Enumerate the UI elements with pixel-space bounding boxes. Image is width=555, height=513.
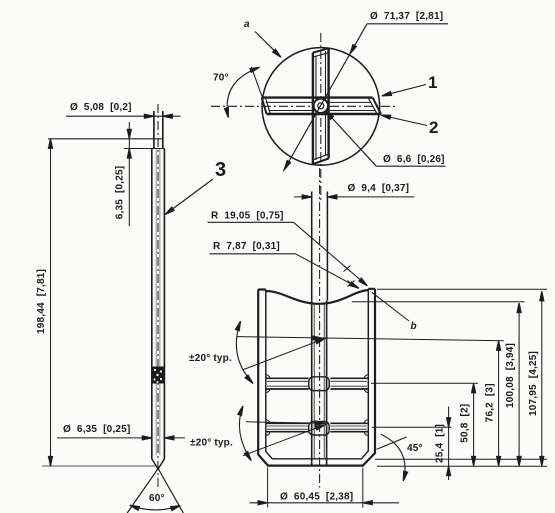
hub bore circle <box>318 103 324 109</box>
svg-text:1: 1 <box>428 73 437 92</box>
upper tilt arc <box>236 321 253 383</box>
70-degree arc arrow <box>227 67 259 117</box>
upper tilt datum line and 76,2 extension <box>236 337 503 341</box>
svg-text:a: a <box>244 19 250 30</box>
shaft centerline <box>157 104 159 488</box>
extension line bottom of 198,44 <box>42 465 157 467</box>
svg-text:Ø 6,6 [0,26]: Ø 6,6 [0,26] <box>383 154 445 165</box>
extension lines right side top <box>377 288 547 290</box>
dimension line diameter 6,35 lower <box>57 437 185 439</box>
svg-text:Ø 5,08 [0,2]: Ø 5,08 [0,2] <box>70 102 132 113</box>
shaft inner bore lines <box>156 149 160 456</box>
vertical centerline top view <box>320 33 322 200</box>
lower bar end fillets <box>266 420 369 436</box>
leader for label 2 <box>383 116 427 126</box>
dimension 6,35 vertical <box>128 122 130 226</box>
45-degree arc <box>381 434 405 481</box>
dimension diameter 9,4 <box>294 196 415 198</box>
svg-text:6,35 [0,25]: 6,35 [0,25] <box>115 166 126 220</box>
svg-text:3: 3 <box>215 159 226 181</box>
dimension leader diameter 6,6 hub bore <box>376 165 445 167</box>
hub outer circle <box>314 99 328 113</box>
svg-text:±20° typ.: ±20° typ. <box>190 438 233 449</box>
dimension line diameter 5,08 <box>66 115 181 117</box>
center bar inner lines <box>314 304 324 459</box>
extension for 50,8 <box>371 382 478 384</box>
svg-text:Ø 6,35 [0,25]: Ø 6,35 [0,25] <box>63 424 130 435</box>
svg-text:2: 2 <box>429 118 438 137</box>
dimension 50,8 <box>473 383 475 466</box>
middle bar end fillets <box>266 375 369 393</box>
svg-text:Ø 9,4 [0,37]: Ø 9,4 [0,37] <box>348 183 410 194</box>
shaft upper thin section <box>154 111 163 149</box>
svg-text:Ø 71,37 [2,81]: Ø 71,37 [2,81] <box>370 11 443 22</box>
body top caps <box>258 288 375 291</box>
middle bar hub boss <box>309 377 329 391</box>
vertical blade outline <box>312 53 314 165</box>
dimension 107,95 <box>541 291 543 466</box>
svg-text:b: b <box>411 321 417 332</box>
svg-text:25,4 [1]: 25,4 [1] <box>435 424 446 463</box>
dimension 100,08 <box>518 303 520 466</box>
dimension 76,2 <box>498 341 500 466</box>
lower cross bar <box>266 422 369 424</box>
middle cross bar <box>266 377 369 379</box>
svg-text:70°: 70° <box>213 73 229 84</box>
shaft step line upper <box>48 138 163 140</box>
horizontal centerline top view <box>211 105 398 107</box>
svg-text:R 19,05 [0,75]: R 19,05 [0,75] <box>211 211 284 222</box>
svg-text:107,95 [4,25]: 107,95 [4,25] <box>528 351 539 416</box>
dimension 25,4 outside arrows <box>448 407 450 481</box>
extension for 25,4 <box>372 426 452 428</box>
lower tilt arc <box>239 406 251 461</box>
lower bar hub boss <box>309 422 329 436</box>
front shaft lines <box>312 192 328 301</box>
dimension 198,44 overall <box>50 139 52 466</box>
shaft conical tip <box>152 459 165 469</box>
svg-text:50,8 [2]: 50,8 [2] <box>460 404 471 443</box>
svg-text:60°: 60° <box>149 493 165 504</box>
radius 19,05 leader <box>208 221 294 223</box>
vertical blade inner lines <box>316 51 326 160</box>
shaft knurled collar <box>152 367 165 384</box>
dimension leader diameter 71,37 <box>367 23 448 25</box>
leader for label b <box>372 292 409 321</box>
svg-text:198,44 [7,81]: 198,44 [7,81] <box>36 269 47 334</box>
45-degree chamfer leader <box>377 437 407 449</box>
shaft step line lower <box>124 148 164 150</box>
leader for label a <box>255 32 280 57</box>
leader for label 3 <box>167 179 214 214</box>
svg-text:45°: 45° <box>407 443 423 454</box>
radius 7,87 leader <box>210 253 296 255</box>
svg-text:76,2 [3]: 76,2 [3] <box>485 383 496 422</box>
extension lines right side bottom <box>375 459 547 466</box>
lower tilt datum line <box>246 422 327 424</box>
front view centerline <box>319 168 321 488</box>
lower tilt 20-degree line <box>243 424 327 456</box>
dimension diameter 60,45 <box>250 502 400 504</box>
horizontal blade outline <box>262 96 373 98</box>
svg-text:±20° typ.: ±20° typ. <box>189 353 232 364</box>
tip 60-degree construction lines <box>127 469 183 513</box>
body inner wall <box>266 289 369 459</box>
svg-text:R 7,87 [0,31]: R 7,87 [0,31] <box>213 241 280 252</box>
svg-text:100,08 [3,94]: 100,08 [3,94] <box>505 343 516 408</box>
svg-text:Ø 60,45 [2,38]: Ø 60,45 [2,38] <box>280 492 353 503</box>
impeller sweep circle <box>262 48 380 166</box>
body outer outline <box>258 289 375 466</box>
body top concave arc <box>266 290 369 304</box>
horizontal blade inner lines <box>266 102 377 110</box>
center bar outline <box>312 301 327 466</box>
arc for 60 degrees <box>130 505 180 510</box>
bottom extension lines for 60,45 <box>268 468 363 508</box>
70-degree radial line <box>251 67 263 100</box>
upper tilt 20-degree line <box>243 338 327 370</box>
leader for label 1 <box>383 85 426 96</box>
shaft main body outline <box>152 149 165 459</box>
